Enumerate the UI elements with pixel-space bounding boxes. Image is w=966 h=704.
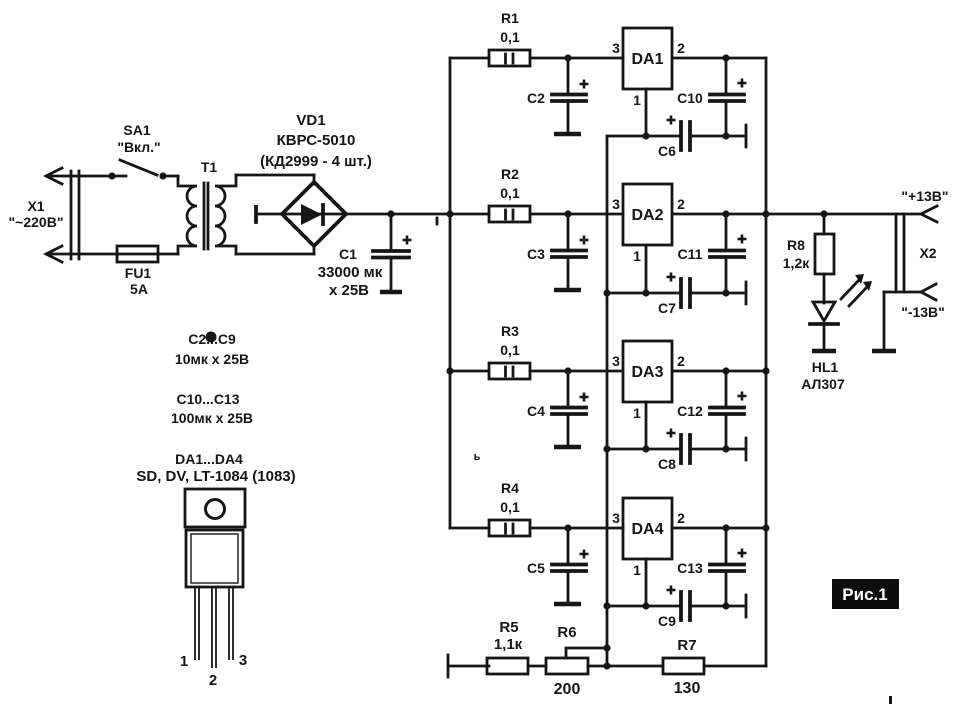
svg-text:C7: C7: [658, 300, 676, 316]
svg-text:R8: R8: [787, 237, 805, 253]
TO-220 package drawing: [180, 489, 247, 689]
regulator DA2: [623, 184, 672, 245]
svg-text:200: 200: [554, 681, 581, 698]
svg-text:C6: C6: [658, 143, 676, 159]
svg-text:(КД2999 - 4 шт.): (КД2999 - 4 шт.): [260, 153, 372, 170]
wire: [672, 370, 766, 373]
svg-text:3: 3: [612, 510, 620, 526]
wire: [48, 175, 126, 178]
wire: [672, 527, 766, 530]
svg-text:C4: C4: [527, 403, 545, 419]
bridge rectifier VD1 KBPC-5010: [256, 112, 372, 246]
node -13V pin: [884, 284, 945, 320]
capacitor C12: [677, 371, 746, 449]
svg-text:3: 3: [612, 40, 620, 56]
capacitor C6: [658, 116, 690, 160]
node: [387, 210, 394, 217]
svg-text:DA1: DA1: [631, 51, 663, 68]
node: [603, 445, 610, 452]
ground tick: [447, 655, 450, 677]
svg-text:5А: 5А: [130, 281, 148, 297]
wire: [158, 253, 178, 256]
ground: [812, 349, 836, 354]
node: [762, 210, 769, 217]
wire: [690, 605, 744, 608]
wire output rail: [766, 213, 921, 216]
svg-text:х 25В: х 25В: [329, 282, 369, 299]
svg-text:10мк х 25В: 10мк х 25В: [175, 351, 249, 367]
ground: [554, 288, 581, 293]
svg-text:1: 1: [633, 92, 641, 108]
svg-text:КВРС-5010: КВРС-5010: [277, 132, 356, 149]
capacitor C1 33000uF 25V: [318, 214, 412, 299]
node: [603, 644, 610, 651]
stray mark: [889, 696, 892, 704]
svg-text:C1: C1: [339, 246, 357, 262]
svg-text:R7: R7: [677, 637, 696, 654]
svg-text:100мк х 25В: 100мк х 25В: [171, 410, 253, 426]
wire: [530, 57, 623, 60]
wire: [530, 527, 623, 530]
svg-text:HL1: HL1: [812, 359, 839, 375]
svg-text:C12: C12: [677, 403, 703, 419]
resistor R6 200 trimmer: [546, 624, 607, 698]
capacitor C2: [527, 58, 588, 132]
switch SA1: [108, 122, 166, 180]
capacitor C5: [527, 528, 588, 602]
wire: [163, 175, 178, 178]
resistor R3 0,1: [489, 323, 530, 379]
svg-text:ь: ь: [474, 451, 481, 463]
wire: [690, 135, 744, 138]
wire: [346, 213, 450, 216]
regulator DA3: [623, 341, 672, 402]
wire adj row: [607, 292, 681, 295]
svg-text:0,1: 0,1: [500, 499, 520, 515]
wire: [690, 448, 744, 451]
wire: [645, 402, 648, 449]
wire: [313, 175, 316, 184]
wire: [690, 292, 744, 295]
wire adj row: [607, 605, 681, 608]
node: [722, 445, 729, 452]
wire: [450, 57, 489, 60]
svg-text:0,1: 0,1: [500, 29, 520, 45]
svg-text:130: 130: [674, 680, 701, 697]
svg-text:R4: R4: [501, 480, 519, 496]
svg-text:3: 3: [612, 353, 620, 369]
node: [603, 289, 610, 296]
svg-text:2: 2: [677, 353, 685, 369]
svg-text:DA3: DA3: [631, 364, 663, 381]
svg-text:1: 1: [633, 562, 641, 578]
node: [722, 602, 729, 609]
node: [642, 445, 649, 452]
ground: [554, 445, 581, 450]
wire: [48, 253, 118, 256]
connector X2: [896, 214, 937, 292]
node: [564, 367, 571, 374]
svg-text:АЛ307: АЛ307: [801, 376, 845, 392]
capacitor C3: [527, 214, 588, 288]
svg-text:"+13В": "+13В": [901, 188, 948, 204]
node: [722, 367, 729, 374]
wire: [588, 665, 663, 668]
capacitor C10: [677, 58, 746, 136]
svg-text:C2: C2: [527, 90, 545, 106]
svg-text:C8: C8: [658, 456, 676, 472]
wire: [448, 665, 489, 668]
svg-text:R3: R3: [501, 323, 519, 339]
wire: [645, 559, 648, 606]
node: [642, 602, 649, 609]
node: [564, 524, 571, 531]
node: [446, 367, 453, 374]
svg-text:R6: R6: [557, 624, 576, 641]
transformer T1: [178, 159, 236, 254]
node: [722, 289, 729, 296]
svg-text:DA4: DA4: [631, 521, 663, 538]
svg-text:C11: C11: [678, 246, 703, 262]
svg-text:T1: T1: [201, 159, 218, 175]
wire: [530, 213, 623, 216]
svg-text:R2: R2: [501, 166, 519, 182]
svg-text:0,1: 0,1: [500, 185, 520, 201]
resistor R5 1,1k: [487, 619, 528, 674]
resistor R4 0,1: [489, 480, 530, 536]
wire right output bus: [765, 58, 768, 666]
svg-text:1: 1: [633, 248, 641, 264]
wire left bus: [449, 58, 452, 528]
svg-text:C5: C5: [527, 560, 545, 576]
wire: [530, 370, 623, 373]
svg-text:C13: C13: [677, 560, 703, 576]
ground tick: [745, 595, 748, 617]
svg-text:1,1к: 1,1к: [494, 636, 523, 653]
connector X1: [9, 168, 79, 262]
svg-text:FU1: FU1: [125, 265, 152, 281]
ground: [872, 349, 896, 354]
wire middle adj bus: [606, 136, 609, 666]
value label C2...C9: [175, 331, 249, 367]
ground tick: [745, 438, 748, 460]
node: [762, 524, 769, 531]
node: [762, 367, 769, 374]
resistor R1 0,1: [489, 10, 530, 66]
svg-text:SD, DV, LT-1084 (1083): SD, DV, LT-1084 (1083): [136, 468, 295, 485]
ground: [554, 132, 581, 137]
wire: [450, 213, 489, 216]
pin 3 lead: [229, 587, 233, 660]
svg-text:"~220В": "~220В": [9, 214, 64, 230]
regulator DA4: [623, 498, 672, 559]
node: [820, 210, 827, 217]
ground: [380, 290, 402, 295]
svg-text:0,1: 0,1: [500, 342, 520, 358]
pin 1 lead: [195, 587, 199, 660]
wire: [645, 245, 648, 293]
wire: [528, 665, 546, 668]
resistor R2 0,1: [489, 166, 530, 222]
capacitor C11: [678, 214, 747, 293]
capacitor C7: [658, 273, 690, 317]
fuse FU1 5A: [117, 246, 158, 297]
svg-text:C3: C3: [527, 246, 545, 262]
node: [722, 210, 729, 217]
svg-text:2: 2: [677, 510, 685, 526]
wire: [236, 253, 314, 256]
node: [722, 524, 729, 531]
wire: [883, 292, 886, 349]
figure label Рис.1: [832, 579, 899, 609]
capacitor C13: [677, 528, 746, 606]
ground tick: [745, 125, 748, 147]
svg-text:3: 3: [612, 196, 620, 212]
pin 2 lead: [212, 587, 216, 668]
svg-text:2: 2: [677, 196, 685, 212]
svg-text:1: 1: [633, 405, 641, 421]
ground tick: [745, 282, 748, 304]
regulator DA1: [623, 28, 672, 89]
capacitor C8: [658, 429, 690, 473]
resistor R8 1,2k: [783, 214, 834, 303]
capacitor C4: [527, 371, 588, 445]
stray mark: [436, 218, 439, 224]
svg-text:1: 1: [180, 653, 188, 670]
wire: [450, 370, 489, 373]
svg-text:VD1: VD1: [296, 112, 325, 129]
ground: [554, 602, 581, 607]
node +13V pin: [901, 188, 948, 222]
wire: [672, 57, 766, 60]
svg-text:"Вкл.": "Вкл.": [117, 139, 160, 155]
wire: [450, 527, 489, 530]
node: [642, 132, 649, 139]
svg-text:2: 2: [677, 40, 685, 56]
node: [642, 289, 649, 296]
node: [603, 662, 610, 669]
capacitor C9: [658, 586, 690, 630]
wire: [236, 174, 314, 177]
wire: [704, 665, 766, 668]
svg-text:R1: R1: [501, 10, 519, 26]
node: [603, 602, 610, 609]
wire: [313, 245, 316, 254]
wire: [645, 89, 648, 136]
svg-text:SA1: SA1: [123, 122, 150, 138]
svg-text:R5: R5: [499, 619, 518, 636]
svg-text:1,2к: 1,2к: [783, 255, 810, 271]
svg-text:2: 2: [209, 672, 217, 689]
svg-text:DA1...DA4: DA1...DA4: [175, 451, 243, 467]
svg-text:3: 3: [239, 652, 247, 669]
svg-text:Рис.1: Рис.1: [842, 585, 887, 604]
svg-text:C10: C10: [677, 90, 703, 106]
svg-text:C10...C13: C10...C13: [176, 391, 239, 407]
LED HL1 AL307: [801, 274, 872, 392]
svg-text:DA2: DA2: [631, 207, 663, 224]
wire: [672, 213, 766, 216]
svg-text:X1: X1: [27, 198, 44, 214]
svg-text:C9: C9: [658, 613, 676, 629]
wire adj row: [607, 135, 681, 138]
wire adj row: [607, 448, 681, 451]
value label C10...C13: [171, 391, 253, 426]
node: [564, 54, 571, 61]
node: [722, 132, 729, 139]
svg-text:33000 мк: 33000 мк: [318, 264, 383, 281]
resistor R7 130: [663, 637, 704, 697]
svg-text:"-13В": "-13В": [901, 304, 945, 320]
value label DA1...DA4: [136, 451, 295, 485]
svg-text:X2: X2: [919, 245, 936, 261]
node: [446, 210, 453, 217]
node: [564, 210, 571, 217]
node: [722, 54, 729, 61]
